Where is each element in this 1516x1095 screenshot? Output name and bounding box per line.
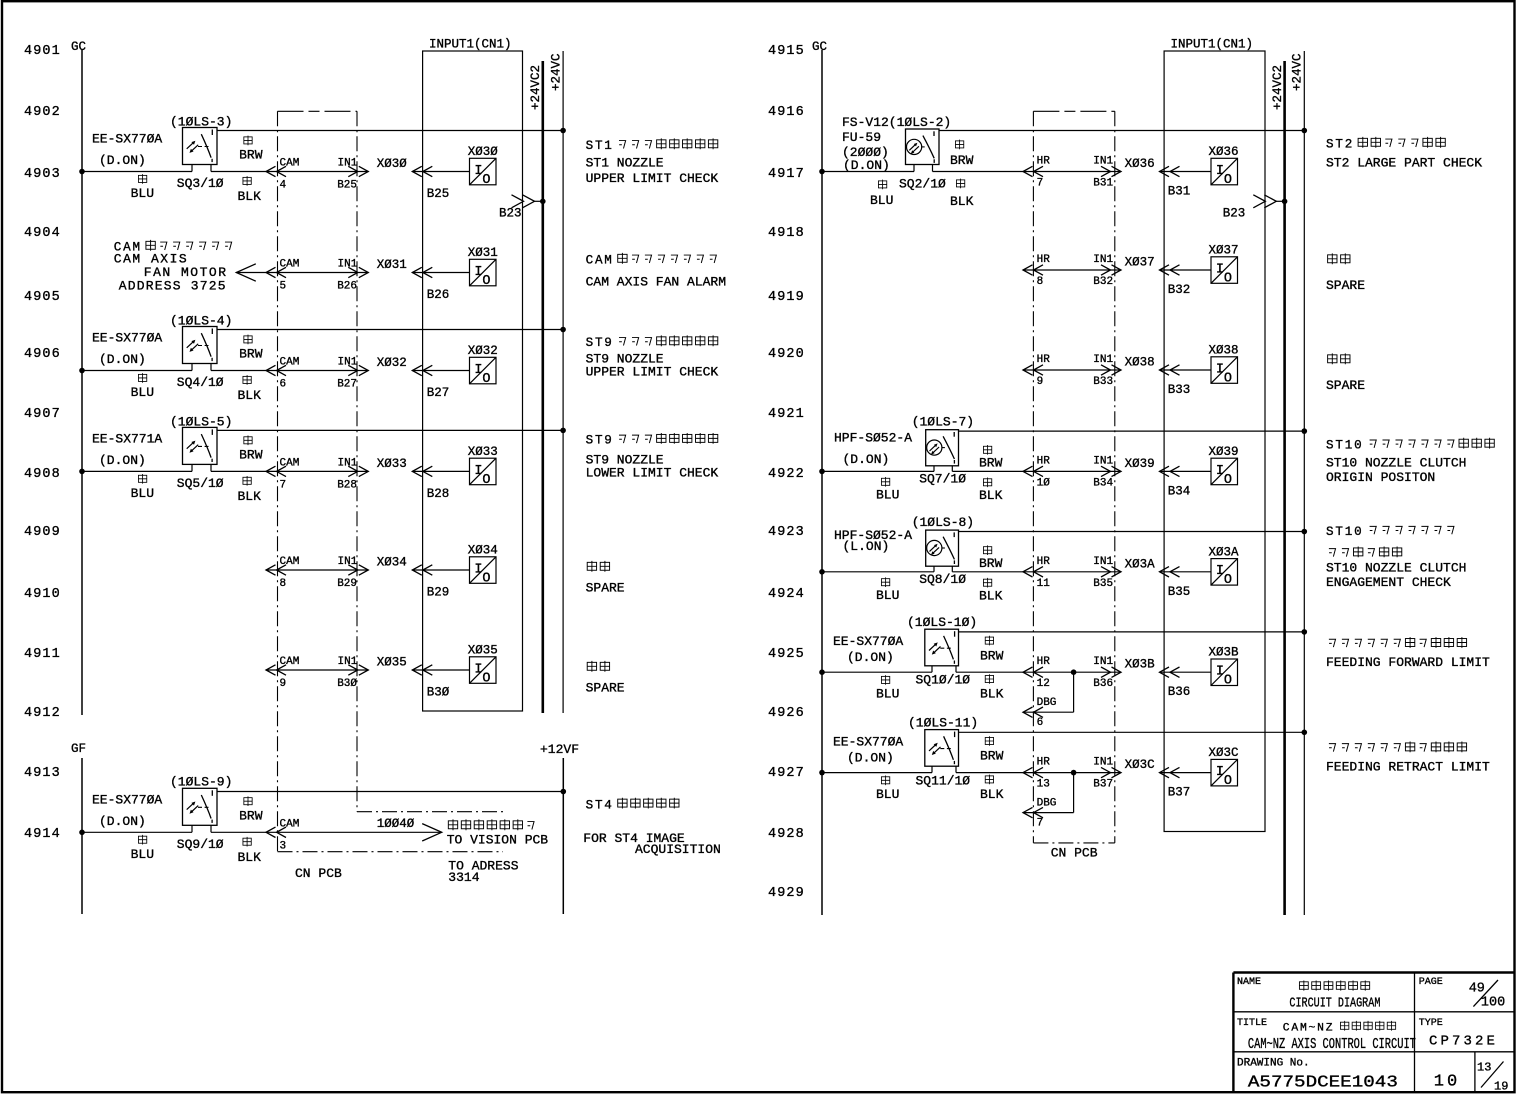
line number 4909 xyxy=(24,525,61,540)
svg-text:FS-V12(1ØLS-2): FS-V12(1ØLS-2) xyxy=(842,115,951,130)
svg-text:CAM: CAM xyxy=(280,556,300,568)
pin B34 label xyxy=(1168,484,1191,498)
svg-text:(1ØLS-8): (1ØLS-8) xyxy=(912,515,974,530)
svg-text:HPF-SØ52-A: HPF-SØ52-A xyxy=(834,430,912,445)
svg-text:13: 13 xyxy=(1037,779,1050,791)
svg-text:XØ3Ø: XØ3Ø xyxy=(468,145,499,159)
svg-text:XØ3B: XØ3B xyxy=(1209,646,1240,660)
svg-text:4922: 4922 xyxy=(768,467,805,482)
wire rail from bus to SQ4/10 xyxy=(82,370,192,372)
label wire BRW xyxy=(239,436,263,463)
svg-text:XØ3C: XØ3C xyxy=(1125,758,1155,772)
svg-text:XØ3Ø: XØ3Ø xyxy=(377,157,408,171)
svg-text:IN1: IN1 xyxy=(1093,656,1113,668)
net GF label xyxy=(71,742,86,756)
svg-text:XØ38: XØ38 xyxy=(1125,356,1155,370)
svg-text:HR: HR xyxy=(1037,656,1051,668)
svg-text:O: O xyxy=(1224,674,1232,689)
svg-text:(D.ON): (D.ON) xyxy=(843,452,890,467)
svg-text:BLK: BLK xyxy=(980,687,1004,702)
sensor SQ7/10 HPF-S052-A xyxy=(834,415,974,487)
svg-text:(1ØLS-1Ø): (1ØLS-1Ø) xyxy=(907,615,977,630)
svg-text:B35: B35 xyxy=(1168,585,1191,599)
label CAM AXIS FAN MOTOR xyxy=(114,240,232,294)
power +24VC left xyxy=(550,51,564,713)
node bus junction at 772.6 xyxy=(819,770,825,776)
svg-text:I: I xyxy=(474,464,482,479)
label TO VISION PCB xyxy=(447,819,549,847)
I/O module X033 xyxy=(468,445,498,488)
sensor SQ8/10 HPF-S052-A xyxy=(834,515,974,587)
svg-text:4923: 4923 xyxy=(768,525,805,540)
wire rail from bus to SQ2/10 xyxy=(822,171,914,173)
line number 4929 xyxy=(768,886,805,901)
svg-text:O: O xyxy=(482,173,490,188)
svg-text:B26: B26 xyxy=(337,281,357,293)
svg-text:4: 4 xyxy=(280,180,287,192)
I/O module X032 xyxy=(468,344,498,387)
wire rail from bus to SQ5/10 xyxy=(82,470,192,472)
svg-text:CAM~NZ AXIS CONTROL CIRCUIT: CAM~NZ AXIS CONTROL CIRCUIT xyxy=(1248,1037,1416,1053)
svg-text:I: I xyxy=(1216,164,1224,179)
label function description xyxy=(1326,253,1365,293)
svg-text:CAM: CAM xyxy=(280,357,300,369)
wire SQ3/10 to cable xyxy=(211,171,266,173)
wire X035 into connector xyxy=(412,665,469,675)
svg-text:4928: 4928 xyxy=(768,827,805,842)
svg-text:I: I xyxy=(1216,262,1224,277)
label wire BRW xyxy=(950,140,974,168)
net X031 xyxy=(377,258,407,272)
svg-text:FU-59: FU-59 xyxy=(842,130,881,145)
svg-text:ST10: ST10 xyxy=(1326,525,1363,539)
line number 4922 xyxy=(768,467,805,482)
svg-text:(L.ON): (L.ON) xyxy=(843,539,890,554)
pin B35 label xyxy=(1168,585,1191,599)
net X039 xyxy=(1125,457,1155,471)
svg-text:SPARE: SPARE xyxy=(1326,278,1365,293)
net GC right label xyxy=(812,40,827,54)
svg-text:BRW: BRW xyxy=(239,148,263,163)
pin B30 label xyxy=(427,686,450,700)
svg-text:(D.ON): (D.ON) xyxy=(99,153,146,168)
net B23 right xyxy=(1223,195,1288,221)
wire DBG branch pin 6 xyxy=(1023,669,1076,729)
wire SQ11/10 to cable xyxy=(956,772,1023,774)
wire SQ4/10 to cable xyxy=(211,370,266,372)
svg-text:BLU: BLU xyxy=(870,193,893,208)
svg-text:TO VISION PCB: TO VISION PCB xyxy=(447,833,549,848)
svg-text:B26: B26 xyxy=(427,288,450,302)
power +24VC2 left xyxy=(529,61,543,713)
label wire BLK xyxy=(979,478,1003,503)
svg-text:ST9: ST9 xyxy=(586,434,614,448)
net X03A xyxy=(1125,557,1156,571)
svg-text:HR: HR xyxy=(1037,354,1051,366)
I/O module X030 xyxy=(468,145,499,188)
sensor SQ5/10 EE-SX771A xyxy=(92,415,232,491)
svg-text:12: 12 xyxy=(1037,678,1050,690)
svg-text:4918: 4918 xyxy=(768,226,805,241)
svg-text:4921: 4921 xyxy=(768,407,805,422)
svg-text:9: 9 xyxy=(1037,376,1044,388)
power +24VC2 right xyxy=(1271,61,1285,915)
label wire BLU xyxy=(870,180,893,208)
svg-text:B29: B29 xyxy=(427,586,450,600)
label wire BRW xyxy=(239,335,263,362)
svg-text:XØ39: XØ39 xyxy=(1209,445,1239,459)
svg-text:BLU: BLU xyxy=(876,787,899,802)
svg-text:CAM~NZ: CAM~NZ xyxy=(1283,1023,1334,1035)
svg-text:O: O xyxy=(482,372,490,387)
net X030 xyxy=(377,157,408,171)
svg-text:BLK: BLK xyxy=(979,588,1003,603)
node bus junction at 471.4 xyxy=(79,469,85,475)
svg-text:B25: B25 xyxy=(337,180,357,192)
label wire BLU xyxy=(131,474,154,501)
wire cable arrow HR pin 8 / IN1 B32 xyxy=(1023,254,1121,288)
svg-text:INPUT1(CN1): INPUT1(CN1) xyxy=(429,38,512,52)
svg-text:4909: 4909 xyxy=(24,525,61,540)
svg-text:CAM AXIS FAN ALARM: CAM AXIS FAN ALARM xyxy=(586,275,726,290)
svg-text:O: O xyxy=(1224,573,1232,588)
svg-text:11: 11 xyxy=(1037,578,1051,590)
wire cable arrow CAM pin 8 / IN1 B29 xyxy=(266,556,368,590)
line number 4920 xyxy=(768,347,805,362)
label wire BLU xyxy=(131,835,154,862)
svg-text:TITLE: TITLE xyxy=(1237,1018,1267,1029)
label wire BRW xyxy=(980,736,1004,764)
wire rail from bus to SQ3/10 xyxy=(82,171,192,173)
svg-text:6: 6 xyxy=(1037,717,1044,729)
svg-text:B27: B27 xyxy=(337,379,357,391)
label function description xyxy=(586,433,719,480)
net X033 xyxy=(377,457,407,471)
svg-text:I: I xyxy=(474,662,482,677)
svg-text:XØ33: XØ33 xyxy=(377,457,407,471)
svg-text:IN1: IN1 xyxy=(1093,354,1113,366)
wire SQ10/10 top to +24VC xyxy=(959,629,1308,635)
svg-text:CAM: CAM xyxy=(280,259,300,271)
svg-text:4913: 4913 xyxy=(24,766,61,781)
label wire BLK xyxy=(238,476,262,504)
wire cable arrow HR pin 10 / IN1 B34 xyxy=(1023,455,1121,489)
svg-text:100: 100 xyxy=(1481,996,1505,1011)
svg-text:XØ37: XØ37 xyxy=(1209,244,1239,258)
svg-text:CAM: CAM xyxy=(280,818,300,830)
svg-text:O: O xyxy=(1224,173,1232,188)
svg-text:6: 6 xyxy=(280,379,287,391)
svg-text:4924: 4924 xyxy=(768,587,805,602)
wire cable arrow HR pin 12 / IN1 B36 xyxy=(1023,656,1121,690)
line number 4925 xyxy=(768,647,805,662)
line number 4908 xyxy=(24,467,61,482)
svg-text:XØ31: XØ31 xyxy=(377,258,407,272)
svg-text:(1ØLS-5): (1ØLS-5) xyxy=(170,415,232,430)
line number 4913 xyxy=(24,766,61,781)
svg-text:BRW: BRW xyxy=(239,347,263,362)
svg-text:ST9: ST9 xyxy=(586,336,614,350)
wire SQ8/10 top to +24VC xyxy=(959,529,1308,535)
svg-text:B23: B23 xyxy=(499,206,522,220)
wire SQ7/10 top to +24VC xyxy=(959,428,1308,434)
wire rail from bus to SQ11/10 xyxy=(822,772,932,774)
line number 4919 xyxy=(768,290,805,305)
svg-text:BLU: BLU xyxy=(876,687,899,702)
pin B25 label xyxy=(427,187,450,201)
svg-text:O: O xyxy=(1224,473,1232,488)
pin B37 label xyxy=(1168,786,1191,800)
svg-text:XØ34: XØ34 xyxy=(468,544,498,558)
svg-text:BLK: BLK xyxy=(979,488,1003,503)
svg-text:4916: 4916 xyxy=(768,105,805,120)
svg-text:B28: B28 xyxy=(337,479,357,491)
title block sheet 10 xyxy=(1434,1073,1460,1092)
line number 4906 xyxy=(24,347,61,362)
svg-text:BRW: BRW xyxy=(980,648,1004,663)
svg-text:B31: B31 xyxy=(1093,178,1113,190)
svg-text:+24VC2: +24VC2 xyxy=(1271,65,1285,110)
svg-text:PAGE: PAGE xyxy=(1419,977,1443,988)
svg-text:CAM: CAM xyxy=(586,254,614,268)
svg-text:BLK: BLK xyxy=(238,388,262,403)
svg-text:ADDRESS 3725: ADDRESS 3725 xyxy=(119,279,227,294)
wire X032 into connector xyxy=(412,365,469,375)
svg-text:IN1: IN1 xyxy=(338,259,358,271)
label wire BLU xyxy=(131,174,154,201)
svg-text:ST10 NOZZLE CLUTCH: ST10 NOZZLE CLUTCH xyxy=(1326,561,1466,576)
svg-text:B32: B32 xyxy=(1168,283,1191,297)
title block DRAWING No. xyxy=(1237,1058,1398,1092)
wire SQ2/10 to cable xyxy=(933,171,1024,173)
sensor SQ11/10 EE-SX770A xyxy=(833,715,978,788)
svg-text:ORIGIN POSITON: ORIGIN POSITON xyxy=(1326,470,1435,485)
svg-text:4914: 4914 xyxy=(24,827,61,842)
net X03B xyxy=(1125,658,1156,672)
svg-text:XØ3A: XØ3A xyxy=(1125,557,1156,571)
sensor SQ2/10 FS-V12 xyxy=(842,115,951,192)
svg-text:A5775DCEE1043: A5775DCEE1043 xyxy=(1248,1073,1398,1092)
svg-text:(1ØLS-4): (1ØLS-4) xyxy=(170,314,232,329)
svg-text:BLU: BLU xyxy=(131,385,154,400)
svg-text:EE-SX77ØA: EE-SX77ØA xyxy=(92,132,162,147)
svg-text:BLU: BLU xyxy=(131,486,154,501)
svg-text:XØ32: XØ32 xyxy=(377,356,407,370)
svg-text:B23: B23 xyxy=(1223,206,1246,220)
svg-text:EE-SX771A: EE-SX771A xyxy=(92,431,162,446)
svg-text:(D.ON): (D.ON) xyxy=(99,814,146,829)
svg-text:BLK: BLK xyxy=(950,194,974,209)
svg-text:BLU: BLU xyxy=(131,847,154,862)
svg-text:BLK: BLK xyxy=(980,787,1004,802)
svg-text:SPARE: SPARE xyxy=(586,581,625,596)
pin B28 label xyxy=(427,487,450,501)
wire X036 into connector xyxy=(1160,166,1212,176)
wire X031 into connector xyxy=(412,267,469,277)
svg-text:NAME: NAME xyxy=(1237,977,1261,988)
wire X030 into connector xyxy=(412,166,469,176)
wire cable arrow HR pin 11 / IN1 B35 xyxy=(1023,556,1121,590)
svg-text:B31: B31 xyxy=(1168,185,1191,199)
wire X03C into connector xyxy=(1160,767,1212,777)
svg-text:I: I xyxy=(474,265,482,280)
bus GF xyxy=(81,758,83,914)
title block TITLE xyxy=(1237,1018,1416,1053)
wire DBG branch pin 7 xyxy=(1023,770,1076,830)
label function description xyxy=(583,798,721,857)
svg-text:5: 5 xyxy=(280,281,287,293)
svg-text:ST2 LARGE PART CHECK: ST2 LARGE PART CHECK xyxy=(1326,156,1482,171)
I/O module X03B xyxy=(1209,646,1240,689)
svg-text:B3Ø: B3Ø xyxy=(337,678,357,690)
title block TYPE xyxy=(1419,1018,1498,1050)
svg-text:ENGAGEMENT CHECK: ENGAGEMENT CHECK xyxy=(1326,575,1451,590)
node bus junction at 471.4 xyxy=(819,469,825,475)
svg-text:I: I xyxy=(1216,765,1224,780)
svg-text:4912: 4912 xyxy=(24,706,61,721)
label wire BLK xyxy=(980,674,1004,701)
line number 4915 xyxy=(768,44,805,59)
svg-text:BRW: BRW xyxy=(239,447,263,462)
wire SQ7/10 to cable xyxy=(952,470,1023,472)
svg-text:3314: 3314 xyxy=(448,870,479,885)
svg-text:SPARE: SPARE xyxy=(1326,378,1365,393)
svg-text:B37: B37 xyxy=(1168,786,1191,800)
svg-text:SQ4/1Ø: SQ4/1Ø xyxy=(177,375,224,390)
svg-text:4919: 4919 xyxy=(768,290,805,305)
label wire BLK xyxy=(950,179,974,209)
svg-text:SQ11/1Ø: SQ11/1Ø xyxy=(916,774,971,789)
label function description xyxy=(586,335,719,379)
wire X039 into connector xyxy=(1160,466,1212,476)
svg-text:SQ5/1Ø: SQ5/1Ø xyxy=(177,476,224,491)
sensor SQ9/10 EE-SX770A xyxy=(92,774,232,852)
svg-text:7: 7 xyxy=(1037,818,1044,830)
label wire BRW xyxy=(979,445,1003,470)
svg-text:O: O xyxy=(1224,271,1232,286)
svg-text:(1ØLS-11): (1ØLS-11) xyxy=(908,715,978,730)
wire X03B into connector xyxy=(1160,667,1212,677)
wire cable arrow HR pin 9 / IN1 B33 xyxy=(1023,354,1121,388)
svg-text:IN1: IN1 xyxy=(1093,455,1113,467)
label wire BRW xyxy=(979,545,1003,570)
wire SQ2/10 top to +24VC xyxy=(939,128,1307,134)
svg-text:HR: HR xyxy=(1037,254,1051,266)
svg-text:XØ38: XØ38 xyxy=(1209,344,1239,358)
svg-text:10: 10 xyxy=(1434,1073,1460,1092)
wire to fan motor xyxy=(236,264,266,281)
label wire BLU xyxy=(876,675,899,702)
svg-text:XØ3B: XØ3B xyxy=(1125,658,1156,672)
line number 4928 xyxy=(768,827,805,842)
svg-text:EE-SX77ØA: EE-SX77ØA xyxy=(92,331,162,346)
svg-text:XØ35: XØ35 xyxy=(468,644,498,658)
svg-text:O: O xyxy=(482,274,490,289)
svg-text:HR: HR xyxy=(1037,455,1051,467)
label function description xyxy=(1326,353,1365,393)
label wire BLK xyxy=(979,578,1003,603)
svg-text:4915: 4915 xyxy=(768,44,805,59)
wire SQ10/10 to cable xyxy=(956,671,1023,673)
wire cable arrow CAM pin 6 / IN1 B27 xyxy=(266,357,368,391)
wire cable arrow CAM pin 4 / IN1 B25 xyxy=(266,158,368,192)
svg-text:CAM: CAM xyxy=(280,158,300,170)
wire cable arrow CAM pin 7 / IN1 B28 xyxy=(266,457,368,491)
svg-text:CP732E: CP732E xyxy=(1429,1034,1498,1050)
wire X037 into connector xyxy=(1160,265,1212,275)
svg-text:IN1: IN1 xyxy=(338,457,358,469)
line number 4910 xyxy=(24,587,61,602)
svg-text:XØ31: XØ31 xyxy=(468,246,498,260)
label wire BRW xyxy=(239,136,263,163)
label wire BLK xyxy=(980,775,1004,802)
svg-text:4908: 4908 xyxy=(24,467,61,482)
bus GC right xyxy=(821,50,823,915)
svg-text:EE-SX77ØA: EE-SX77ØA xyxy=(92,792,162,807)
svg-text:+12VF: +12VF xyxy=(540,742,579,757)
label wire BLU xyxy=(876,477,899,503)
svg-text:I: I xyxy=(1216,362,1224,377)
svg-text:XØ3A: XØ3A xyxy=(1209,545,1240,559)
svg-text:4904: 4904 xyxy=(24,226,61,241)
svg-text:GC: GC xyxy=(71,40,86,54)
label function description xyxy=(1326,637,1490,670)
I/O module X037 xyxy=(1209,244,1239,287)
svg-text:(D.ON): (D.ON) xyxy=(847,751,894,766)
svg-text:UPPER LIMIT CHECK: UPPER LIMIT CHECK xyxy=(586,171,719,186)
svg-text:SQ7/1Ø: SQ7/1Ø xyxy=(919,472,966,487)
I/O module X035 xyxy=(468,644,498,687)
svg-text:XØ36: XØ36 xyxy=(1209,145,1239,159)
svg-text:B35: B35 xyxy=(1093,578,1113,590)
wire SQ8/10 to cable xyxy=(952,571,1023,573)
svg-text:I: I xyxy=(1216,564,1224,579)
svg-text:B34: B34 xyxy=(1168,484,1191,498)
svg-text:+24VC: +24VC xyxy=(550,53,564,91)
net X036 xyxy=(1125,157,1155,171)
svg-text:FEEDING FORWARD LIMIT: FEEDING FORWARD LIMIT xyxy=(1326,655,1490,670)
svg-text:B28: B28 xyxy=(427,487,450,501)
line number 4926 xyxy=(768,706,805,721)
I/O module X03A xyxy=(1209,545,1240,588)
svg-text:O: O xyxy=(482,571,490,586)
svg-text:IN1: IN1 xyxy=(338,556,358,568)
svg-text:(1ØLS-3): (1ØLS-3) xyxy=(170,115,232,130)
wire X03A into connector xyxy=(1160,567,1212,577)
label wire BLU xyxy=(131,373,154,400)
line number 4921 xyxy=(768,407,805,422)
label function description xyxy=(1326,742,1490,775)
net B23 left xyxy=(499,195,546,221)
line number 4916 xyxy=(768,105,805,120)
svg-text:(D.ON): (D.ON) xyxy=(99,453,146,468)
line number 4901 xyxy=(24,44,61,59)
label wire BLK xyxy=(238,176,262,204)
svg-text:XØ37: XØ37 xyxy=(1125,256,1155,270)
pin B36 label xyxy=(1168,685,1191,699)
svg-text:EE-SX77ØA: EE-SX77ØA xyxy=(833,634,903,649)
svg-text:4903: 4903 xyxy=(24,167,61,182)
svg-text:ST1: ST1 xyxy=(586,139,614,153)
wire rail from bus to SQ10/10 xyxy=(822,671,932,673)
svg-text:SPARE: SPARE xyxy=(586,681,625,696)
node bus junction at 672.2 xyxy=(819,669,825,675)
svg-text:(D.ON): (D.ON) xyxy=(843,158,890,173)
svg-text:SQ2/1Ø: SQ2/1Ø xyxy=(899,177,946,192)
svg-text:O: O xyxy=(1224,774,1232,789)
svg-text:4906: 4906 xyxy=(24,347,61,362)
svg-text:XØ3C: XØ3C xyxy=(1209,746,1239,760)
